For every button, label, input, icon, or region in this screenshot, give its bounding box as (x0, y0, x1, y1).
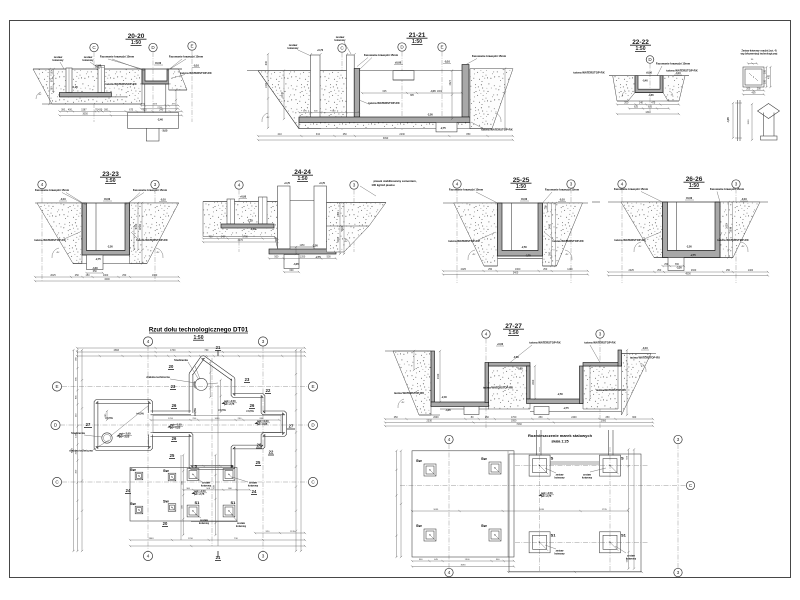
svg-text:1635: 1635 (433, 509, 439, 511)
svg-text:Fazowanie krawędzi 15mm: Fazowanie krawędzi 15mm (656, 62, 691, 66)
svg-text:200: 200 (624, 102, 629, 105)
svg-text:400: 400 (752, 92, 757, 95)
svg-text:250: 250 (485, 416, 490, 419)
svg-text:334: 334 (316, 133, 321, 136)
svg-text:taśma WATERSTOP-RX: taśma WATERSTOP-RX (614, 238, 645, 242)
svg-text:kotwowy: kotwowy (582, 477, 593, 480)
svg-text:Rozmieszczenie marek stalowych: Rozmieszczenie marek stalowych (528, 433, 593, 438)
svg-text:kotwowy: kotwowy (236, 525, 247, 528)
svg-text:45°: 45° (266, 117, 269, 119)
svg-text:3: 3 (154, 182, 157, 187)
svg-text:3: 3 (677, 437, 680, 442)
svg-text:1500: 1500 (337, 237, 340, 243)
svg-text:Fazowanie krawędzi 15mm: Fazowanie krawędzi 15mm (614, 187, 649, 191)
svg-text:-0,10: -0,10 (193, 65, 199, 68)
svg-text:-1,40: -1,40 (250, 228, 256, 231)
svg-text:245: 245 (221, 236, 226, 239)
svg-text:8°: 8° (641, 366, 643, 368)
svg-text:350: 350 (549, 251, 552, 256)
svg-text:1400: 1400 (265, 82, 268, 88)
svg-text:3070: 3070 (238, 239, 244, 242)
svg-text:-2,75: -2,75 (525, 256, 531, 258)
svg-text:pd=-2,75: pd=-2,75 (194, 493, 205, 496)
svg-text:-0,10: -0,10 (60, 198, 66, 201)
svg-text:475: 475 (651, 102, 656, 105)
svg-text:-2,40: -2,40 (441, 396, 447, 399)
section 21-21 (247, 32, 514, 141)
svg-text:27: 27 (289, 424, 294, 429)
svg-text:20: 20 (169, 364, 174, 369)
svg-text:-2,50: -2,50 (427, 114, 433, 117)
svg-text:taśma WATERSTOP-RX: taśma WATERSTOP-RX (394, 391, 424, 395)
svg-text:500: 500 (274, 256, 279, 259)
svg-text:taśma WATERSTOP-RX: taśma WATERSTOP-RX (34, 238, 65, 242)
svg-text:-2,75: -2,75 (95, 258, 101, 261)
svg-text:2627: 2627 (449, 79, 452, 85)
svg-text:20: 20 (163, 521, 168, 526)
svg-text:i=0,5%: i=0,5% (218, 409, 226, 412)
svg-text:250: 250 (657, 269, 662, 272)
section 22-22 (573, 39, 697, 115)
svg-text:7230: 7230 (516, 423, 522, 426)
svg-text:±0,00: ±0,00 (646, 73, 652, 75)
svg-text:3400: 3400 (513, 272, 519, 275)
svg-text:850: 850 (466, 133, 471, 136)
svg-text:-3,30: -3,30 (676, 268, 682, 270)
svg-text:1050: 1050 (214, 418, 220, 420)
svg-text:650: 650 (93, 270, 98, 273)
svg-text:3090: 3090 (383, 137, 389, 140)
svg-text:300: 300 (104, 109, 109, 112)
svg-text:Fazowanie krawędzi 15mm: Fazowanie krawędzi 15mm (364, 53, 399, 57)
svg-text:800: 800 (265, 61, 268, 66)
svg-text:45°: 45° (401, 402, 404, 404)
svg-text:-2,50: -2,50 (686, 246, 692, 249)
svg-text:500: 500 (327, 256, 332, 259)
svg-text:3: 3 (570, 182, 573, 187)
svg-text:Sw: Sw (481, 456, 488, 461)
svg-text:±0,00: ±0,00 (95, 65, 102, 68)
svg-text:Sw: Sw (481, 523, 488, 528)
svg-text:3: 3 (262, 554, 265, 559)
svg-text:675: 675 (648, 106, 653, 109)
svg-text:400: 400 (768, 74, 771, 79)
svg-text:Zestaw kotwowy osadzić (szt. 4: Zestaw kotwowy osadzić (szt. 4) (741, 50, 776, 53)
svg-text:±0,00: ±0,00 (155, 62, 162, 65)
svg-text:-2,50: -2,50 (107, 246, 113, 249)
svg-text:-3,05: -3,05 (445, 410, 451, 412)
svg-text:-2,75: -2,75 (690, 255, 696, 257)
svg-text:45°: 45° (344, 241, 347, 243)
svg-text:taśma WATERSTOP-RX: taśma WATERSTOP-RX (573, 71, 604, 75)
svg-text:4500: 4500 (685, 273, 691, 276)
svg-text:kotwowy: kotwowy (288, 46, 300, 50)
svg-text:250: 250 (664, 263, 669, 266)
svg-text:210: 210 (278, 133, 283, 136)
svg-text:-2,75: -2,75 (563, 408, 569, 410)
svg-text:675: 675 (129, 109, 134, 112)
svg-text:21: 21 (216, 345, 221, 350)
svg-text:2400: 2400 (281, 91, 284, 97)
svg-text:600: 600 (290, 269, 295, 272)
svg-text:2025: 2025 (461, 268, 467, 271)
svg-text:taśma WATERSTOP-RX: taśma WATERSTOP-RX (448, 239, 479, 243)
svg-text:-1,25: -1,25 (247, 220, 253, 223)
svg-text:250: 250 (543, 268, 548, 271)
svg-text:1700: 1700 (168, 418, 174, 420)
svg-text:pd=-2,75: pd=-2,75 (224, 403, 235, 406)
svg-text:E: E (311, 384, 314, 389)
svg-text:pd=-0,85: pd=-0,85 (257, 423, 268, 426)
svg-text:S1: S1 (231, 500, 237, 505)
svg-text:900: 900 (632, 416, 637, 419)
svg-text:1587: 1587 (81, 109, 87, 112)
svg-text:2025: 2025 (50, 274, 56, 277)
svg-text:250: 250 (538, 416, 543, 419)
section 23-23 (34, 171, 180, 282)
svg-text:drabina techniczna: drabina techniczna (146, 375, 170, 379)
svg-text:-2,50: -2,50 (557, 393, 563, 396)
svg-text:Sw: Sw (130, 501, 137, 506)
svg-text:1400: 1400 (567, 268, 573, 271)
svg-text:3: 3 (353, 183, 356, 188)
svg-text:700: 700 (208, 236, 213, 239)
svg-text:±0,00: ±0,00 (686, 197, 693, 200)
svg-text:1700: 1700 (188, 538, 194, 540)
svg-text:1135: 1135 (290, 531, 295, 533)
svg-text:300: 300 (61, 109, 66, 112)
anchor set detail (728, 50, 780, 142)
svg-text:430: 430 (98, 109, 103, 112)
svg-text:-2,75: -2,75 (440, 127, 446, 130)
svg-text:1700: 1700 (170, 349, 176, 352)
svg-text:-0,60: -0,60 (513, 356, 519, 359)
svg-text:45°: 45° (56, 252, 59, 254)
svg-text:1650: 1650 (532, 379, 535, 385)
svg-text:3: 3 (735, 182, 738, 187)
svg-text:45°: 45° (156, 252, 159, 254)
svg-text:4: 4 (485, 332, 488, 337)
svg-text:±0,00: ±0,00 (521, 198, 528, 201)
plan Rozmieszczenie marek stalowych (395, 430, 694, 577)
svg-text:+0,70: +0,70 (284, 183, 291, 185)
svg-text:S: S (551, 456, 554, 461)
svg-text:1790: 1790 (242, 236, 248, 239)
svg-text:250: 250 (343, 133, 348, 136)
svg-text:E: E (55, 384, 58, 389)
svg-text:Sw: Sw (416, 458, 423, 463)
svg-text:±0,00: ±0,00 (395, 62, 402, 65)
svg-text:100 kg/m3 piasku: 100 kg/m3 piasku (371, 183, 394, 187)
svg-text:taśma WATERSTOP-RX: taśma WATERSTOP-RX (666, 69, 697, 73)
svg-text:Fazowanie krawędzi 15mm: Fazowanie krawędzi 15mm (35, 188, 70, 192)
svg-text:Fazowanie krawędzi 15mm: Fazowanie krawędzi 15mm (449, 188, 484, 192)
svg-text:Studzienka: Studzienka (71, 431, 85, 435)
svg-text:3400: 3400 (104, 278, 110, 281)
svg-text:2400: 2400 (571, 416, 577, 419)
svg-text:+0,70: +0,70 (319, 183, 326, 185)
svg-text:250: 250 (394, 416, 399, 419)
svg-text:-3,05: -3,05 (293, 264, 299, 266)
svg-text:3: 3 (262, 339, 265, 344)
svg-text:1345: 1345 (76, 432, 78, 438)
svg-text:645: 645 (383, 90, 388, 93)
svg-text:250: 250 (605, 416, 610, 419)
svg-text:4: 4 (448, 437, 451, 442)
svg-text:±0,00: ±0,00 (104, 198, 111, 201)
svg-text:200: 200 (746, 88, 751, 91)
svg-text:kotwowy: kotwowy (53, 58, 65, 62)
svg-text:25: 25 (170, 453, 175, 458)
svg-text:taśma WATERSTOP-RX: taśma WATERSTOP-RX (368, 101, 399, 105)
svg-text:250: 250 (122, 274, 127, 277)
svg-text:1735: 1735 (602, 509, 608, 511)
svg-text:-2,50: -2,50 (521, 246, 527, 249)
svg-text:45°: 45° (38, 94, 41, 96)
svg-text:3090: 3090 (461, 565, 467, 567)
svg-text:wg dokumentacji technologiczne: wg dokumentacji technologicznej (741, 53, 778, 56)
svg-text:-0,10: -0,10 (642, 347, 648, 350)
svg-text:Sw: Sw (130, 467, 137, 472)
svg-text:S: S (621, 456, 624, 461)
svg-text:S1: S1 (621, 532, 627, 537)
svg-text:26: 26 (172, 436, 177, 441)
svg-text:100: 100 (545, 205, 548, 210)
svg-text:1000: 1000 (337, 211, 340, 217)
svg-text:25: 25 (256, 460, 261, 465)
svg-text:-0,40: -0,40 (642, 80, 648, 83)
svg-text:22: 22 (269, 450, 274, 455)
svg-text:26: 26 (172, 403, 177, 408)
svg-text:4: 4 (448, 570, 451, 575)
svg-text:3: 3 (677, 570, 680, 575)
svg-text:i=0,5%: i=0,5% (136, 413, 144, 416)
svg-text:kotwowy: kotwowy (201, 485, 212, 488)
section 25-25 (442, 177, 589, 283)
svg-text:Fazowanie krawędzi 15mm: Fazowanie krawędzi 15mm (100, 55, 135, 59)
svg-text:taśma WATERSTOP-RX: taśma WATERSTOP-RX (717, 238, 748, 242)
svg-text:1350: 1350 (300, 256, 306, 259)
svg-text:250: 250 (726, 269, 731, 272)
svg-text:-0,85: -0,85 (517, 369, 523, 371)
svg-text:3050: 3050 (82, 113, 88, 116)
svg-text:27: 27 (86, 422, 91, 427)
section 26-26 (592, 176, 769, 283)
svg-text:4: 4 (147, 554, 150, 559)
svg-text:26: 26 (250, 403, 255, 408)
svg-text:573: 573 (51, 78, 54, 83)
svg-text:kotwowy: kotwowy (248, 485, 259, 488)
svg-text:kotwowy: kotwowy (83, 58, 95, 62)
svg-text:2400: 2400 (549, 223, 552, 229)
svg-text:-0,10: -0,10 (444, 61, 450, 64)
svg-text:taśma WATERSTOP-RX: taśma WATERSTOP-RX (105, 82, 136, 86)
svg-text:pd=-0,85: pd=-0,85 (170, 427, 181, 430)
svg-text:3: 3 (599, 332, 602, 337)
svg-text:Fazowanie krawędzi 15mm: Fazowanie krawędzi 15mm (710, 187, 745, 191)
svg-text:taśma WATERSTOP-RX: taśma WATERSTOP-RX (529, 341, 560, 345)
svg-text:22: 22 (266, 388, 271, 393)
svg-text:-0,10: -0,10 (160, 199, 166, 202)
svg-text:2400: 2400 (437, 373, 440, 379)
svg-text:-0,65: -0,65 (648, 95, 654, 97)
section 27-27 (384, 323, 660, 428)
svg-text:45°: 45° (741, 246, 744, 248)
svg-text:2500: 2500 (139, 223, 142, 229)
svg-text:23: 23 (171, 384, 176, 389)
svg-text:200: 200 (757, 88, 762, 91)
svg-text:+0,70: +0,70 (317, 49, 324, 52)
svg-text:-0,10: -0,10 (559, 199, 565, 202)
svg-text:taśma WATERSTOP-RX: taśma WATERSTOP-RX (180, 71, 211, 75)
svg-text:taśma WATERSTOP-RX: taśma WATERSTOP-RX (596, 388, 626, 392)
svg-text:skala 1:25: skala 1:25 (551, 440, 568, 444)
svg-text:taśma WATERSTOP-RX: taśma WATERSTOP-RX (481, 128, 512, 132)
svg-text:650: 650 (675, 263, 680, 266)
svg-text:240: 240 (159, 109, 164, 112)
svg-text:45°: 45° (638, 246, 641, 248)
svg-text:2600: 2600 (691, 269, 697, 272)
svg-text:-2,75: -2,75 (315, 257, 321, 259)
svg-text:1300: 1300 (465, 559, 471, 561)
svg-text:pd=-3,05: pd=-3,05 (119, 436, 130, 439)
svg-text:+0,00: +0,00 (497, 343, 504, 346)
svg-text:1250: 1250 (299, 245, 305, 247)
svg-text:2400: 2400 (726, 223, 729, 229)
svg-text:2950: 2950 (601, 420, 607, 423)
svg-text:-0,10: -0,10 (675, 73, 681, 75)
svg-text:-0,10: -0,10 (741, 198, 747, 201)
svg-text:-3,05: -3,05 (162, 129, 168, 132)
svg-text:-1,25: -1,25 (72, 86, 78, 89)
svg-text:Studzienka: Studzienka (174, 358, 188, 362)
svg-text:2863: 2863 (149, 538, 155, 540)
svg-text:4: 4 (41, 182, 44, 187)
svg-text:250: 250 (488, 268, 493, 271)
svg-text:kotwowy: kotwowy (199, 522, 210, 525)
svg-text:140: 140 (639, 102, 644, 105)
svg-text:1000: 1000 (103, 274, 109, 277)
svg-text:S1: S1 (195, 500, 201, 505)
svg-text:i=0,5%: i=0,5% (194, 407, 197, 415)
svg-text:Sw: Sw (163, 468, 170, 473)
svg-text:730: 730 (204, 349, 209, 352)
svg-text:-0,45: -0,45 (430, 90, 436, 93)
svg-text:1340: 1340 (645, 111, 651, 114)
section 24-24 (202, 169, 417, 273)
svg-text:4: 4 (621, 182, 624, 187)
svg-text:-0,35: -0,35 (728, 117, 730, 123)
svg-text:23: 23 (245, 377, 250, 382)
svg-text:+0,00: +0,00 (240, 196, 247, 199)
svg-text:kotwowy: kotwowy (335, 38, 347, 42)
svg-text:4: 4 (147, 339, 150, 344)
svg-text:2500: 2500 (730, 226, 733, 232)
svg-text:taśma WATERSTOP-RX: taśma WATERSTOP-RX (483, 386, 513, 390)
svg-text:Fazowanie krawędzi 15mm: Fazowanie krawędzi 15mm (133, 188, 168, 192)
svg-text:Sw: Sw (163, 499, 170, 504)
svg-text:230: 230 (51, 86, 54, 91)
svg-text:4: 4 (456, 182, 459, 187)
svg-text:2400: 2400 (135, 223, 138, 229)
plan Rzut dolu technologicznego DT01 (51, 327, 318, 561)
svg-text:1400: 1400 (748, 269, 754, 272)
svg-text:200: 200 (764, 79, 767, 84)
svg-text:250: 250 (75, 274, 80, 277)
svg-text:1962: 1962 (437, 90, 443, 93)
svg-text:S1: S1 (551, 532, 557, 537)
svg-text:1300: 1300 (152, 274, 158, 277)
svg-text:2000: 2000 (433, 416, 439, 419)
svg-text:Fazowanie krawędzi 15mm: Fazowanie krawędzi 15mm (472, 54, 507, 58)
svg-text:i=0,5%: i=0,5% (246, 410, 254, 413)
svg-text:4: 4 (238, 183, 241, 188)
svg-text:Rzut dołu technologicznego DT0: Rzut dołu technologicznego DT01 (149, 327, 249, 334)
svg-text:2500: 2500 (341, 225, 344, 231)
svg-text:24: 24 (252, 489, 257, 494)
svg-text:Fazowanie krawędzi 15mm: Fazowanie krawędzi 15mm (545, 188, 580, 192)
svg-text:taśma WATERSTOP-RX: taśma WATERSTOP-RX (630, 356, 660, 360)
svg-text:Fazowanie krawędzi 15mm: Fazowanie krawędzi 15mm (169, 55, 204, 59)
svg-text:625: 625 (634, 106, 639, 109)
svg-text:E: E (190, 44, 193, 49)
svg-text:200: 200 (764, 69, 767, 74)
section 20-20 (33, 33, 212, 141)
svg-text:pd=-2,75: pd=-2,75 (541, 495, 552, 498)
svg-text:E: E (440, 45, 443, 50)
svg-text:Sw: Sw (416, 523, 423, 528)
svg-text:2330: 2330 (427, 420, 433, 423)
svg-text:1500: 1500 (748, 119, 750, 125)
svg-text:2025: 2025 (629, 269, 635, 272)
svg-text:2230: 2230 (399, 133, 405, 136)
svg-text:825: 825 (143, 109, 148, 112)
svg-text:1635: 1635 (539, 509, 545, 511)
svg-text:kotwowy: kotwowy (554, 477, 565, 480)
svg-text:2863: 2863 (114, 349, 120, 352)
svg-text:150: 150 (86, 274, 91, 277)
svg-text:-2,40: -2,40 (157, 119, 163, 122)
svg-text:taśma WATERSTOP-RX: taśma WATERSTOP-RX (584, 341, 615, 345)
svg-text:45°: 45° (565, 254, 568, 256)
svg-text:taśma WATERSTOP-RX: taśma WATERSTOP-RX (552, 239, 583, 243)
svg-text:taśma WATERSTOP-RX: taśma WATERSTOP-RX (136, 238, 167, 242)
svg-text:45°: 45° (472, 254, 475, 256)
svg-text:8520: 8520 (72, 447, 74, 453)
svg-text:400: 400 (68, 109, 73, 112)
svg-text:150: 150 (51, 70, 54, 75)
svg-text:kotwowy: kotwowy (554, 553, 565, 556)
